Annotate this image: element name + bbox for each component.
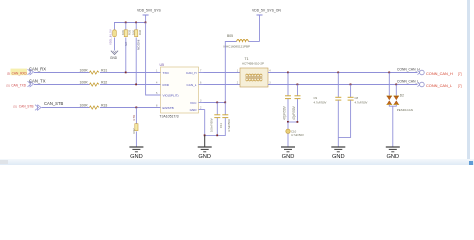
svg-text:CAN_STB: CAN_STB (44, 101, 64, 106)
pin 1 TXD (156, 69, 170, 75)
svg-text:100R: 100R (80, 104, 89, 108)
svg-text:VDD_IN_5V: VDD_IN_5V (109, 29, 113, 45)
node GND bus at C11 (216, 134, 218, 136)
svg-text:4.7uF/50V: 4.7uF/50V (314, 101, 327, 105)
svg-text:EN/STB: EN/STB (163, 106, 174, 110)
svg-text:CAN_RXD: CAN_RXD (12, 71, 28, 75)
wire bead to VCC drop (225, 42, 236, 103)
wire from R34 to down-arrow (114, 38, 116, 51)
resistor R34 (vertical on left leg) (113, 30, 117, 37)
wire CONN_CAN_H choke to port (268, 72, 418, 74)
node VCC/C11 (216, 102, 218, 104)
wire CANH U5 to choke (204, 72, 241, 74)
svg-text:TXD: TXD (163, 71, 170, 75)
wire R36 down to CAN_TX (135, 38, 137, 85)
window edge tint right (467, 0, 470, 165)
svg-text:VDD_5V_SYS_ON: VDD_5V_SYS_ON (252, 9, 281, 13)
node junction R36/CAN_TX (135, 84, 137, 86)
wire VCC net (204, 102, 226, 104)
wire vertical to R36 pullup (135, 23, 137, 30)
wire CAN_STB from port to R33 (42, 107, 90, 109)
node bus junction at R36 (135, 22, 137, 24)
svg-text:4.7uF/50V: 4.7uF/50V (227, 119, 231, 132)
svg-text:RXD: RXD (163, 83, 170, 87)
wire VIO feed: bus down then right to U5 pin5 (146, 23, 161, 96)
svg-text:C11: C11 (219, 123, 223, 128)
svg-text:GND: GND (110, 56, 118, 60)
svg-text:R37: R37 (132, 128, 136, 134)
window corner dot (469, 161, 473, 165)
wire R35 down to CAN_RX (125, 38, 127, 73)
wire vertical to R34 (114, 23, 116, 30)
svg-text:T1: T1 (245, 57, 249, 61)
svg-text:GND: GND (190, 108, 198, 112)
window edge tint bottom (0, 159, 474, 165)
svg-text:8: 8 (156, 104, 158, 107)
svg-text:4.7K: 4.7K (132, 115, 136, 121)
svg-text:47pF/50V: 47pF/50V (282, 105, 286, 120)
svg-text:100nF/50V: 100nF/50V (210, 118, 214, 132)
svg-text:3: 3 (200, 99, 202, 102)
wire CAN_TX from port to R32 (34, 84, 90, 86)
node GND bus at tap (204, 134, 206, 136)
port CONN_CAN_H (right) (418, 70, 462, 76)
ground GND3 (281, 147, 295, 160)
power symbol VDD_5V0_SYS (137, 9, 161, 23)
svg-text:R33: R33 (101, 104, 107, 108)
svg-text:4: 4 (156, 81, 158, 84)
svg-text:2: 2 (200, 106, 202, 109)
svg-text:[5]: [5] (14, 105, 17, 109)
svg-text:1: 1 (156, 69, 158, 72)
wire vertical to R35 pullup (125, 23, 127, 30)
wire CAN_RX from R31 to U5 pin1 (100, 72, 161, 74)
svg-text:[7]: [7] (458, 72, 462, 76)
svg-text:ACT45B-510-2P: ACT45B-510-2P (242, 62, 264, 66)
svg-text:VCC: VCC (190, 101, 197, 105)
transformer T1 common mode choke ACT45B-510-2P (237, 57, 272, 87)
svg-text:[5]: [5] (7, 83, 10, 87)
wire 5V bus horizontal (114, 22, 146, 24)
svg-text:CONN_CAN_L: CONN_CAN_L (426, 83, 453, 88)
node bus junction at VIO drop (145, 22, 147, 24)
svg-text:47pF/50V: 47pF/50V (292, 105, 296, 120)
capacitor C7 47pF on CANL (292, 84, 301, 123)
svg-text:CAN_TX: CAN_TX (29, 78, 46, 83)
svg-text:[7]: [7] (458, 84, 462, 88)
svg-text:U5: U5 (160, 63, 165, 67)
svg-text:100R: 100R (80, 69, 89, 73)
wire CAN_RX from port to R31 (34, 72, 90, 74)
svg-text:CONN_CAN_H: CONN_CAN_H (397, 67, 420, 71)
pin 2 GND (190, 106, 205, 112)
node bus junction at R35 (125, 22, 127, 24)
svg-text:7: 7 (200, 69, 202, 72)
wire CAN_TX from R32 to U5 pin4 (100, 84, 161, 86)
wire CAN_STB from R33 to U5 pin8 (100, 107, 161, 109)
svg-text:C9: C9 (314, 96, 318, 100)
svg-text:TJA1051T/3: TJA1051T/3 (160, 114, 179, 118)
svg-text:R32: R32 (101, 81, 107, 85)
svg-text:6: 6 (200, 81, 202, 84)
node junction R35/CAN_RX (125, 72, 127, 74)
diode D2 TVS PESD1CAN (387, 72, 413, 148)
port down-arrow under R34 (110, 51, 118, 60)
svg-text:[5]: [5] (7, 71, 10, 75)
pin 7 CANH (186, 69, 204, 75)
svg-text:VDD_5V0_SYS: VDD_5V0_SYS (137, 9, 161, 13)
svg-text:R31: R31 (101, 69, 107, 73)
resistor R33 100R (series on CAN_STB) (80, 104, 108, 110)
svg-text:CONN_CAN_L: CONN_CAN_L (397, 79, 419, 83)
capacitor C6 47pF on CANH (282, 72, 291, 123)
ground GND1 (under R37) (129, 147, 143, 160)
capacitor C9 4.7uF on CANH (314, 72, 342, 148)
capacitor C10 4.7uF (split tap) (286, 122, 304, 147)
resistor R32 100R (series on CAN_TX) (80, 81, 108, 87)
svg-text:4.7uF/50V: 4.7uF/50V (291, 133, 304, 137)
ground GND2 (U5 ground) (198, 135, 212, 160)
svg-text:CAN_TXD: CAN_TXD (11, 83, 27, 87)
svg-text:5: 5 (156, 92, 158, 95)
svg-text:CAN_STB: CAN_STB (19, 105, 34, 109)
op-amp U5 CAN transceiver TJA1051T/3 body (160, 63, 199, 118)
svg-text:NC/DNI: NC/DNI (136, 40, 140, 50)
wire join bar C6/C7 (288, 121, 298, 123)
svg-text:PESD1CAN: PESD1CAN (397, 108, 413, 112)
ferrite bead B05 MHC1608S121PBP (224, 34, 251, 48)
port CAN_TXD (left) (7, 81, 34, 87)
pin 3 VCC (190, 99, 204, 105)
svg-text:CONN_CAN_H: CONN_CAN_H (426, 71, 453, 76)
wire GND bus under U5 (205, 110, 226, 136)
ground GND5 (386, 147, 400, 160)
capacitor C11 100nF (210, 103, 223, 136)
pin 5 VIO (156, 92, 179, 98)
port CONN_CAN_L (right) (418, 82, 462, 88)
resistor R36 pullup on CAN_TX (132, 29, 142, 50)
wire CANL U5 to choke (204, 84, 241, 86)
resistor R31 100R (series on CAN_RX) (80, 69, 108, 75)
svg-text:CAN_H: CAN_H (186, 71, 197, 75)
wire power to bead B05 (249, 41, 260, 43)
port CAN_STB (left) (14, 105, 42, 111)
svg-text:D2: D2 (400, 93, 404, 97)
svg-text:CAN_RX: CAN_RX (29, 66, 46, 71)
svg-text:VIO(SPLIT): VIO(SPLIT) (163, 94, 179, 98)
pin 6 CANL (187, 81, 204, 87)
capacitor C8 4.7uF on CANL (338, 84, 367, 138)
svg-text:R36: R36 (138, 29, 142, 35)
ground GND4 (331, 147, 345, 160)
pin 4 RXD (156, 81, 170, 87)
svg-text:B05: B05 (227, 34, 233, 38)
svg-text:4.7uF/50V: 4.7uF/50V (355, 101, 368, 105)
resistor R35 pullup on CAN_RX (121, 29, 131, 46)
capacitor C12 4.7uF (222, 103, 231, 136)
svg-text:C8: C8 (355, 96, 359, 100)
svg-text:CAN_L: CAN_L (187, 83, 197, 87)
wire CONN_CAN_L choke to port (268, 84, 418, 86)
resistor R37 pulldown on CAN_STB (132, 107, 138, 148)
svg-text:MHC1608S121PBP: MHC1608S121PBP (224, 44, 251, 48)
port CAN_RXD (left, highlighted) (7, 69, 34, 76)
power symbol VDD_5V_SYS_ON (252, 9, 281, 42)
node VCC/bead drop (224, 102, 226, 104)
pin 8 S/STB (156, 104, 174, 110)
svg-text:100R: 100R (80, 81, 89, 85)
